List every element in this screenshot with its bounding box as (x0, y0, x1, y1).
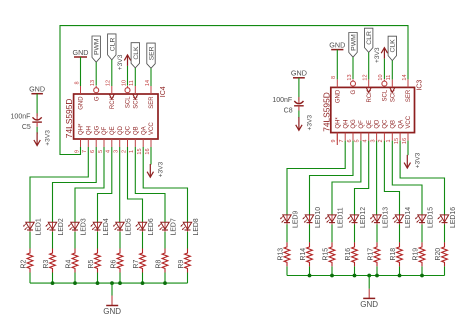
wire PWM to IC4 pin 13 (95, 62, 97, 85)
svg-text:R9: R9 (178, 260, 185, 269)
svg-text:LED7: LED7 (171, 218, 178, 235)
svg-text:GND: GND (291, 69, 307, 78)
IC4 pin 10 (SCL) top stub (121, 80, 131, 108)
wire LED14 to R18 (399, 224, 401, 242)
supply +3V3 symbol (C5 bottom) (34, 130, 52, 146)
junction dots right rail (308, 274, 424, 278)
svg-text:1: 1 (386, 139, 392, 142)
GND lead (right bottom) (368, 289, 370, 298)
IC3 pin 8 (GND) top stub (331, 76, 341, 103)
resistor R2 (20, 249, 33, 273)
svg-text:GND: GND (360, 300, 378, 309)
svg-text:LED5: LED5 (126, 218, 133, 235)
svg-text:CLR: CLR (366, 31, 373, 45)
svg-text:11: 11 (386, 75, 392, 81)
wire R4 to GND rail (74, 273, 76, 284)
svg-text:16: 16 (145, 148, 151, 154)
svg-text:LED8: LED8 (193, 218, 200, 235)
wire IC3 pin col 8 to LED16 (400, 141, 444, 215)
IC4 pin 8 (GND) top stub (74, 81, 84, 109)
svg-text:12: 12 (106, 80, 112, 86)
wire LED6 to R7 (142, 232, 144, 249)
IC4 pin 1 (QB) bottom stub (129, 126, 139, 153)
svg-text:GND: GND (79, 96, 85, 110)
svg-text:+3V3: +3V3 (415, 152, 422, 168)
IC4 pin 14 (SER) top stub (145, 80, 155, 109)
resistor R13 (277, 242, 290, 266)
svg-text:SER: SER (148, 46, 155, 60)
IC3 pin 11 (SCK) top stub (386, 75, 396, 103)
svg-text:VCC: VCC (149, 122, 155, 135)
wire LED13 to R17 (376, 224, 378, 242)
svg-text:14: 14 (402, 74, 408, 80)
resistor R19 (412, 242, 425, 266)
resistor R3 (43, 249, 56, 273)
svg-text:74LS595D: 74LS595D (64, 99, 74, 139)
supply GND symbol (IC4 pin8) (73, 48, 89, 57)
svg-text:74LS595D: 74LS595D (321, 92, 331, 132)
wire IC4 pin col 4 to LED4 (98, 147, 112, 222)
svg-text:GND: GND (103, 307, 121, 316)
net label flag CLK (left) (131, 43, 140, 68)
net label flag CLK (right) (388, 36, 397, 60)
svg-text:G: G (351, 89, 357, 94)
LED LED11 (325, 207, 344, 228)
svg-text:LED14: LED14 (405, 207, 412, 228)
svg-text:QA: QA (141, 126, 147, 135)
svg-text:QB: QB (134, 126, 140, 135)
wire GND to C5 (36, 94, 38, 117)
svg-text:LED1: LED1 (36, 218, 43, 235)
supply GND symbol (left rail) (103, 306, 121, 317)
resistor R15 (322, 242, 335, 266)
IC3 pin 13 (G) top stub (347, 74, 357, 94)
IC3 pin 2 (QC) bottom stub (378, 119, 388, 143)
IC3 pin 14 (SER) top stub (402, 74, 412, 102)
wire LED5 to R6 (119, 232, 121, 249)
wire LED10 to R14 (309, 224, 311, 242)
svg-text:R2: R2 (20, 260, 27, 269)
IC IC4 74LS595D box (74, 94, 158, 139)
IC3 pin 12 (RCK) top stub (363, 74, 373, 102)
svg-text:LED10: LED10 (315, 207, 322, 228)
IC3 pin 7 (QH) bottom stub (339, 120, 349, 143)
svg-text:C5: C5 (22, 124, 31, 131)
svg-text:LED11: LED11 (338, 207, 345, 228)
LED LED6 (136, 218, 155, 235)
svg-text:11: 11 (129, 80, 135, 86)
svg-text:R4: R4 (65, 260, 72, 269)
svg-text:GND: GND (29, 85, 45, 94)
svg-text:10: 10 (378, 74, 384, 80)
wire IC3 pin col 3 to LED11 (332, 141, 361, 215)
IC4 pin 13 (G) top stub (90, 80, 100, 101)
svg-text:+3V3: +3V3 (306, 115, 313, 131)
capacitor C8 100nF (272, 97, 303, 115)
svg-text:C8: C8 (284, 108, 293, 115)
supply GND symbol (IC3 pin8) (329, 40, 345, 49)
wire R5 to GND rail (97, 273, 99, 284)
LED LED14 (393, 207, 412, 228)
svg-text:5: 5 (355, 139, 361, 142)
wire R15 to GND rail (331, 266, 333, 275)
IC3 pin 4 (QE) bottom stub (363, 120, 373, 143)
LED LED13 (370, 207, 389, 228)
svg-text:SCK: SCK (134, 96, 140, 108)
LED LED9 (280, 211, 299, 228)
wire R13 to GND rail (286, 266, 288, 275)
svg-text:R7: R7 (133, 260, 140, 269)
wire IC3 QD to LED13 (376, 141, 378, 215)
svg-text:R16: R16 (345, 248, 352, 261)
svg-text:1: 1 (129, 150, 135, 153)
wire R3 to GND rail (52, 273, 54, 284)
wire IC4 pin col 2 to LED2 (53, 147, 97, 222)
LED LED2 (46, 218, 65, 235)
resistor R14 (300, 242, 313, 266)
IC3 pin 9 (QH*) bottom stub (331, 117, 341, 143)
svg-text:LED12: LED12 (360, 207, 367, 228)
wire LED12 to R16 (354, 224, 356, 242)
wire R7 to GND rail (142, 273, 144, 284)
LED LED8 (181, 218, 200, 235)
svg-text:QE: QE (110, 126, 116, 135)
wire R8 to GND rail (164, 273, 166, 284)
svg-text:QD: QD (118, 125, 124, 135)
wire R16 to GND rail (354, 266, 356, 275)
wire right rail to GND (368, 276, 370, 289)
wire R14 to GND rail (309, 266, 311, 275)
svg-text:13: 13 (347, 74, 353, 80)
svg-text:LED15: LED15 (428, 207, 435, 228)
wire IC3 pin col 7 to LED15 (392, 141, 422, 215)
svg-text:5: 5 (98, 150, 104, 153)
wire CLK to IC4 pin 11 (134, 68, 136, 86)
wire C5 to +3V3 (36, 127, 38, 134)
svg-text:SCL: SCL (383, 89, 389, 101)
wire left GND rail (30, 282, 188, 284)
svg-text:9: 9 (74, 150, 80, 153)
LED LED4 (91, 218, 110, 235)
svg-text:RCK: RCK (110, 96, 116, 109)
svg-text:7: 7 (82, 150, 88, 153)
IC3 pin 9 unconnected stub extension (336, 133, 338, 145)
svg-text:R14: R14 (300, 248, 307, 261)
supply +3V3 symbol (IC3 pin10) (374, 47, 388, 63)
IC3 pin 5 (QF) bottom stub (355, 120, 365, 143)
LED LED10 (303, 207, 322, 228)
svg-text:R8: R8 (155, 260, 162, 269)
wire LED1 to R2 (29, 232, 31, 249)
wire LED3 to R4 (74, 232, 76, 249)
svg-text:SER: SER (149, 96, 155, 109)
IC4 pin 12 (RCK) top stub (106, 80, 116, 109)
wire CLK to IC3 pin 11 (391, 61, 393, 80)
svg-text:CLK: CLK (390, 39, 397, 53)
wire LED16 to R20 (444, 224, 446, 242)
svg-text:SER: SER (406, 89, 412, 102)
IC3 pin 6 (QG) bottom stub (347, 119, 357, 143)
svg-text:QC: QC (383, 119, 389, 129)
IC4 pin 6 (QG) bottom stub (90, 125, 100, 153)
wire LED15 to R19 (421, 224, 423, 242)
svg-text:15: 15 (137, 148, 143, 154)
LED LED3 (68, 218, 87, 235)
svg-text:+3V3: +3V3 (45, 130, 52, 146)
svg-text:QE: QE (367, 120, 373, 129)
supply GND symbol (C8) (291, 69, 307, 78)
svg-text:CLR: CLR (109, 38, 116, 52)
svg-text:QC: QC (126, 125, 132, 135)
wire R20 to GND rail (444, 266, 446, 275)
svg-text:QH: QH (343, 120, 349, 129)
resistor R18 (390, 242, 403, 266)
wire C8 to +3V3 (298, 111, 300, 119)
svg-text:3: 3 (370, 139, 376, 142)
IC3 pin 10 (SCL) top stub (378, 74, 388, 101)
supply +3V3 symbol (IC4 VCC) (147, 161, 165, 177)
wire IC4 QD to LED5 (119, 147, 121, 222)
IC4 pin 5 (QF) bottom stub (98, 126, 108, 153)
svg-text:100nF: 100nF (272, 97, 292, 104)
supply +3V3 symbol (C8 bottom) (296, 115, 314, 131)
wire LED8 to R9 (187, 232, 189, 249)
IC4 pin 9 (QH*) bottom stub (74, 123, 84, 153)
svg-text:+3V3: +3V3 (158, 161, 165, 177)
wire GND to IC4 pin 8 (80, 57, 82, 86)
svg-text:10: 10 (121, 80, 127, 86)
supply +3V3 symbol (IC4 pin10) (117, 54, 131, 70)
svg-text:R6: R6 (110, 260, 117, 269)
svg-text:IC3: IC3 (417, 80, 424, 91)
IC4 pin 11 (SCK) top stub (129, 80, 139, 109)
svg-text:2: 2 (121, 150, 127, 153)
IC4 pin 3 (QD) bottom stub (113, 125, 123, 153)
net label flag PWM (right) (349, 33, 358, 58)
wire SER to IC4 pin 14 (150, 68, 152, 86)
IC3 pin 3 (QD) bottom stub (370, 119, 380, 143)
svg-text:15: 15 (394, 138, 400, 144)
wire R2 to GND rail (29, 273, 31, 284)
resistor R9 (178, 249, 191, 273)
wire IC4 pin col 7 to LED7 (135, 147, 165, 222)
svg-text:CLK: CLK (133, 46, 140, 60)
svg-text:+3V3: +3V3 (374, 47, 381, 63)
wire IC3 pin col 6 to LED14 (384, 141, 399, 215)
svg-text:+3V3: +3V3 (117, 54, 124, 70)
svg-text:4: 4 (363, 139, 369, 142)
IC3 pin 1 (QB) bottom stub (386, 120, 396, 143)
svg-text:LED4: LED4 (103, 218, 110, 235)
junction dots left rail (51, 281, 167, 285)
svg-text:7: 7 (339, 139, 345, 142)
svg-text:12: 12 (363, 74, 369, 80)
wire +3V3 to IC4 pin 10 (127, 66, 129, 86)
svg-text:GND: GND (336, 89, 342, 103)
wire IC4 pin col 1 to LED1 (30, 147, 88, 222)
capacitor C5 100nF (11, 113, 42, 131)
wire IC3 pin col 1 to LED9 (287, 141, 345, 215)
wire R6 to GND rail (119, 273, 121, 284)
svg-text:R15: R15 (322, 248, 329, 261)
wire CLR to IC4 pin 12 (111, 60, 113, 86)
svg-text:QG: QG (351, 119, 357, 129)
wire R17 to GND rail (376, 266, 378, 275)
svg-text:QH*: QH* (336, 117, 342, 129)
net label flag PWM (left) (92, 36, 101, 62)
svg-text:9: 9 (331, 139, 337, 142)
IC4 pin 15 (QA) bottom stub (137, 126, 147, 154)
svg-text:PWM: PWM (351, 34, 358, 51)
svg-text:R5: R5 (88, 260, 95, 269)
net label flag SER (left) (147, 43, 156, 68)
resistor R16 (345, 242, 358, 266)
wire LED2 to R3 (52, 232, 54, 249)
resistor R5 (88, 249, 101, 273)
svg-text:R13: R13 (277, 248, 284, 261)
net label flag CLR (right) (365, 28, 374, 52)
wire GND to C8 (298, 78, 300, 101)
resistor R4 (65, 249, 78, 273)
svg-text:100nF: 100nF (11, 114, 31, 121)
svg-text:QH: QH (87, 126, 93, 135)
wire LED9 to R13 (286, 224, 288, 242)
svg-text:PWM: PWM (94, 38, 101, 55)
LED LED7 (158, 218, 177, 235)
svg-text:QD: QD (375, 119, 381, 129)
svg-text:14: 14 (145, 80, 151, 86)
IC3 pin 15 (QA) bottom stub (394, 120, 404, 144)
svg-text:GND: GND (329, 40, 345, 49)
IC4 pin 4 (QE) bottom stub (106, 126, 116, 153)
svg-text:RCK: RCK (367, 90, 373, 103)
IC4 pin 7 (QH) bottom stub (82, 126, 92, 153)
svg-text:QA: QA (398, 120, 404, 129)
svg-text:2: 2 (378, 139, 384, 142)
svg-text:6: 6 (90, 150, 96, 153)
IC4 pin 16 (VCC) bottom stub (145, 122, 155, 155)
resistor R17 (367, 242, 380, 266)
GND lead (left bottom) (111, 296, 113, 306)
wire IC4 pin col 8 to LED8 (143, 147, 187, 222)
wire LED4 to R5 (97, 232, 99, 249)
svg-text:8: 8 (331, 76, 337, 79)
svg-text:LED9: LED9 (293, 211, 300, 228)
wire PWM to IC3 pin 13 (352, 57, 354, 79)
svg-text:VCC: VCC (406, 115, 412, 128)
svg-text:6: 6 (347, 139, 353, 142)
wire IC4 pin col 6 to LED6 (128, 147, 143, 222)
svg-text:LED6: LED6 (148, 218, 155, 235)
IC IC3 74LS595D box (331, 87, 415, 132)
resistor R8 (155, 249, 168, 273)
IC3 pin 16 (VCC) bottom stub (402, 115, 412, 144)
svg-text:R20: R20 (435, 248, 442, 261)
supply +3V3 symbol (IC3 VCC) (404, 152, 422, 168)
svg-text:IC4: IC4 (160, 86, 167, 97)
svg-text:SCL: SCL (126, 96, 132, 108)
svg-text:LED3: LED3 (81, 218, 88, 235)
resistor R6 (110, 249, 123, 273)
IC4 pin 2 (QC) bottom stub (121, 125, 131, 153)
wire GND to IC3 pin 8 (336, 50, 338, 80)
wire CLR to IC3 pin 12 (368, 52, 370, 79)
svg-text:3: 3 (113, 150, 119, 153)
svg-text:QF: QF (359, 120, 365, 129)
wire R9 to GND rail (187, 273, 189, 284)
svg-text:R19: R19 (412, 248, 419, 261)
resistor R7 (133, 249, 146, 273)
LED LED5 (113, 218, 132, 235)
wire left rail to GND (111, 283, 113, 295)
svg-text:4: 4 (106, 150, 112, 153)
svg-text:R3: R3 (43, 260, 50, 269)
wire LED7 to R8 (164, 232, 166, 249)
wire IC4 pin col 3 to LED3 (75, 147, 104, 222)
supply GND symbol (C5) (29, 85, 45, 94)
svg-text:QF: QF (102, 126, 108, 135)
wire R18 to GND rail (399, 266, 401, 275)
svg-text:13: 13 (90, 80, 96, 86)
supply GND symbol (right rail) (360, 298, 378, 309)
wire right GND rail (287, 275, 445, 277)
svg-text:R18: R18 (390, 248, 397, 261)
wire LED11 to R15 (331, 224, 333, 242)
wire +3V3 to IC3 pin 10 (383, 59, 385, 79)
resistor R20 (435, 242, 448, 266)
LED LED16 (438, 207, 457, 228)
svg-text:SCK: SCK (390, 90, 396, 102)
net label flag CLR (left) (108, 34, 117, 60)
svg-text:QB: QB (390, 120, 396, 129)
svg-text:LED13: LED13 (383, 207, 390, 228)
LED LED12 (348, 207, 367, 228)
wire IC4 pin16 VCC to +3V3 (150, 147, 152, 165)
svg-text:GND: GND (73, 48, 89, 57)
wire IC3 pin16 VCC to +3V3 (407, 141, 409, 156)
LED LED1 (23, 218, 42, 235)
svg-text:8: 8 (74, 81, 80, 84)
svg-text:G: G (94, 96, 100, 101)
wire IC3 pin col 4 to LED12 (355, 141, 369, 215)
svg-text:LED2: LED2 (58, 218, 65, 235)
wire IC3 pin col 2 to LED10 (310, 141, 354, 215)
svg-text:R17: R17 (367, 248, 374, 261)
wire R19 to GND rail (421, 266, 423, 275)
svg-text:LED16: LED16 (450, 207, 457, 228)
svg-text:QH*: QH* (79, 123, 85, 135)
svg-text:QG: QG (94, 125, 100, 135)
LED LED15 (415, 207, 434, 228)
wire net QH'(IC4)->SER(IC3) daisy chain (60, 26, 408, 155)
svg-text:16: 16 (402, 138, 408, 144)
